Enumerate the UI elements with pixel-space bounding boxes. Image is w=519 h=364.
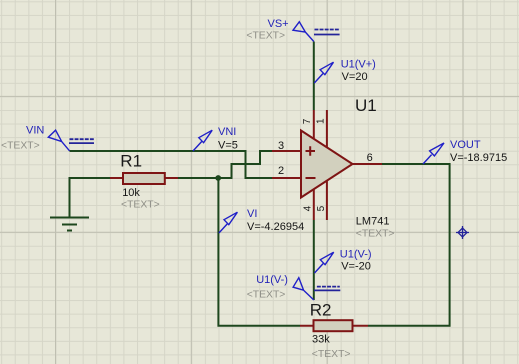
node A junction dot — [215, 175, 221, 181]
probe VI — [219, 212, 238, 233]
wire node junction down to R2 left — [218, 178, 300, 326]
label R1 — [120, 151, 142, 170]
svg-text:<TEXT>: <TEXT> — [312, 349, 351, 360]
resistor R2 — [300, 320, 368, 331]
svg-text:4: 4 — [302, 205, 313, 211]
placeholder text VS+ — [246, 31, 285, 42]
value V=-20 — [341, 261, 371, 273]
generator terminal VS+ — [293, 22, 340, 42]
wire VS+ to pin 7 — [313, 42, 315, 111]
pin 3 — [272, 150, 301, 152]
generator terminal VIN — [48, 130, 94, 151]
placeholder text R2 — [312, 349, 351, 360]
svg-text:<TEXT>: <TEXT> — [246, 31, 285, 42]
label U1(V+) — [341, 59, 376, 71]
pin 6 — [353, 163, 383, 165]
svg-text:3: 3 — [278, 140, 284, 152]
label U1(V-) terminal — [256, 274, 288, 286]
svg-text:2: 2 — [278, 165, 284, 177]
svg-text:LM741: LM741 — [356, 216, 390, 228]
placeholder text U1 — [356, 228, 395, 239]
svg-text:VNI: VNI — [218, 126, 236, 138]
svg-text:33k: 33k — [312, 334, 330, 346]
wire output to R2 right — [368, 164, 450, 326]
pin 1 — [326, 110, 328, 147]
svg-text:VIN: VIN — [26, 125, 44, 137]
svg-text:V=-20: V=-20 — [341, 261, 371, 273]
svg-text:U1: U1 — [355, 96, 377, 115]
probe U1(V+) — [314, 62, 333, 83]
placeholder text R1 — [121, 200, 160, 211]
pin 2 — [272, 177, 301, 179]
label LM741 — [356, 216, 390, 228]
svg-text:6: 6 — [367, 152, 373, 164]
pin number 6 — [367, 152, 373, 164]
origin marker — [456, 226, 469, 239]
placeholder text U1(V-) — [247, 290, 286, 301]
svg-text:VOUT: VOUT — [450, 139, 481, 151]
label VS+ — [268, 18, 289, 30]
svg-text:<TEXT>: <TEXT> — [1, 140, 40, 151]
svg-text:R1: R1 — [120, 151, 142, 170]
label VOUT — [450, 139, 481, 151]
probe VNI — [193, 130, 212, 151]
value V=-4.26954 — [247, 221, 304, 233]
svg-text:<TEXT>: <TEXT> — [121, 200, 160, 211]
svg-text:<TEXT>: <TEXT> — [247, 290, 286, 301]
op-amp U1 — [301, 131, 353, 198]
pin number 4 — [302, 205, 313, 211]
svg-text:V=-4.26954: V=-4.26954 — [247, 221, 304, 233]
label U1 — [355, 96, 377, 115]
label R2 — [310, 300, 332, 319]
svg-text:U1(V+): U1(V+) — [341, 59, 376, 71]
pin 4 — [313, 189, 315, 220]
generator terminal U1(V-) — [293, 278, 340, 300]
wire feedback node to pin 3 — [178, 151, 272, 178]
svg-text:5: 5 — [316, 205, 327, 211]
pin 7 — [313, 110, 315, 139]
wire pin 4 to U1(V-) source — [313, 220, 315, 300]
resistor R1 — [110, 173, 178, 184]
svg-text:V=5: V=5 — [218, 139, 238, 151]
pin 5 — [326, 181, 328, 220]
svg-text:7: 7 — [302, 118, 313, 124]
value 33k — [312, 334, 330, 346]
pin number 2 — [278, 165, 284, 177]
svg-text:1: 1 — [316, 118, 327, 124]
svg-text:U1(V-): U1(V-) — [256, 274, 288, 286]
svg-text:R2: R2 — [310, 300, 332, 319]
pin number 7 — [302, 118, 313, 124]
svg-text:<TEXT>: <TEXT> — [356, 228, 395, 239]
wire VIN input to pin 2 — [70, 151, 273, 178]
value V=-18.9715 — [450, 152, 507, 164]
label U1(V-) probe — [340, 249, 372, 261]
svg-text:10k: 10k — [122, 187, 140, 199]
probe VOUT — [423, 143, 444, 164]
pin number 1 — [316, 118, 327, 124]
value V=20 — [342, 71, 368, 83]
ground — [50, 218, 89, 231]
label VIN — [26, 125, 44, 137]
svg-text:V=20: V=20 — [342, 71, 368, 83]
svg-text:U1(V-): U1(V-) — [340, 249, 372, 261]
svg-text:V=-18.9715: V=-18.9715 — [450, 152, 507, 164]
svg-text:VI: VI — [247, 208, 257, 220]
svg-text:VS+: VS+ — [268, 18, 289, 30]
placeholder text VIN — [1, 140, 40, 151]
pin number 3 — [278, 140, 284, 152]
value 10k — [122, 187, 140, 199]
label VI — [247, 208, 257, 220]
pin number 5 — [316, 205, 327, 211]
value V=5 — [218, 139, 238, 151]
label VNI — [218, 126, 236, 138]
probe U1(V-) — [315, 252, 334, 273]
wire R1 left to ground — [70, 178, 111, 218]
